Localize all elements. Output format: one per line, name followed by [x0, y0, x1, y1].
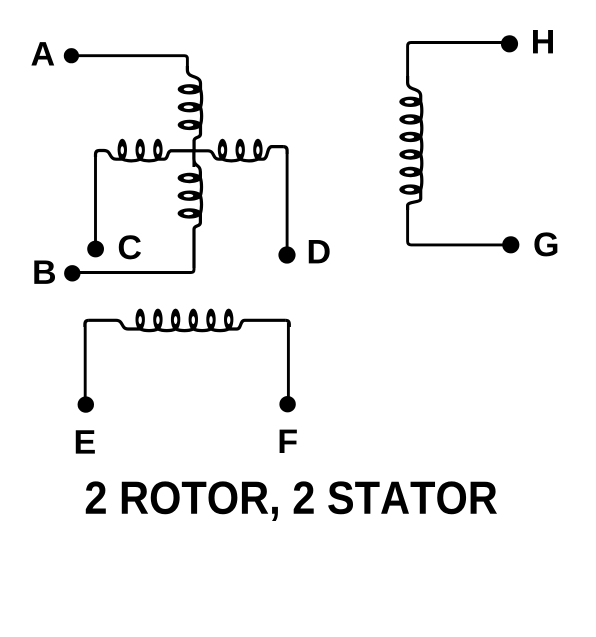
terminal E (dot) [78, 396, 94, 412]
terminal A (dot) [64, 48, 79, 63]
inductor coil L3 (right stator winding, terminal D side) [194, 139, 287, 161]
label D [309, 240, 330, 263]
wire: L6 to terminal E [84, 323, 87, 398]
wire: L2 to terminal C [94, 153, 97, 243]
wire: A to top rotor coil L1 [71, 56, 187, 70]
label B [34, 261, 55, 284]
label E [76, 430, 95, 453]
terminal F (dot) [279, 396, 295, 412]
inductor coil L2 (left stator winding, terminal C side) [96, 139, 194, 161]
inductor coil L6 (rotor winding E-F) [85, 309, 289, 331]
wire: center junction vertical segment [192, 140, 195, 167]
label C [119, 235, 141, 259]
label G [534, 232, 557, 256]
wire: L6 to terminal F [287, 323, 290, 398]
label A [31, 42, 54, 65]
label H [533, 30, 553, 53]
terminal D (dot) [278, 246, 295, 263]
inductor coil L5 (stator winding H-G) [399, 76, 422, 210]
wire: L5 to terminal G [408, 206, 511, 245]
wire: L3 to terminal D [286, 152, 289, 247]
terminal H (dot) [501, 35, 518, 52]
label F [280, 430, 297, 453]
inductor coil L4 (bottom rotor winding, terminal B side) [178, 149, 202, 268]
inductor coil L1 (top rotor winding, terminal A side) [178, 66, 202, 152]
wire: H to coil L5 [408, 43, 510, 81]
terminal B (dot) [64, 265, 80, 281]
terminal C (dot) [87, 241, 104, 258]
terminal G (dot) [502, 236, 519, 253]
wire: center junction horizontal segment [170, 149, 196, 152]
title caption: 2 ROTOR, 2 STATOR [86, 481, 106, 513]
wire: L4 to terminal B [72, 264, 194, 273]
